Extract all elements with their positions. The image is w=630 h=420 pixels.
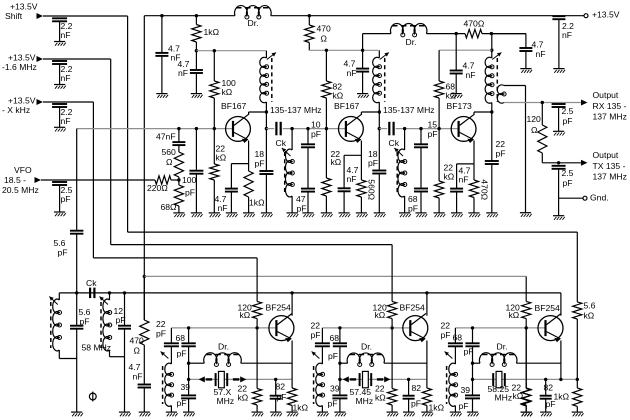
output terminal RX <box>581 90 627 122</box>
svg-text:18.5 -: 18.5 - <box>4 175 26 185</box>
resistor 470 ohm horizontal <box>464 19 526 38</box>
wire shift line <box>128 231 578 233</box>
ground <box>156 94 168 98</box>
svg-text:pF: pF <box>459 401 469 411</box>
input terminal +13.5V -1.6 MHz <box>2 53 43 72</box>
svg-text:MHz: MHz <box>495 393 513 403</box>
label 39 <box>330 384 340 394</box>
label MHz <box>495 393 513 403</box>
svg-text:pF: pF <box>116 315 126 325</box>
ground <box>403 412 415 416</box>
capacitor 82pF osc2 <box>403 379 415 412</box>
resistor 100k ohm <box>210 51 236 129</box>
label 68 <box>330 333 340 343</box>
wire injection line <box>59 292 561 294</box>
label kΩ <box>238 393 249 403</box>
svg-text:BF173: BF173 <box>447 101 473 111</box>
wire Q1 emitter <box>231 141 248 164</box>
wire supply feed down <box>143 16 145 320</box>
node tank2 bottom <box>378 127 381 130</box>
label pF <box>177 349 187 359</box>
label 22 <box>311 321 321 331</box>
ground <box>119 412 131 416</box>
ground <box>302 213 314 217</box>
node injection left <box>75 291 78 294</box>
svg-text:Ck: Ck <box>389 138 400 148</box>
svg-text:137 MHz: 137 MHz <box>593 112 627 122</box>
svg-text:kΩ: kΩ <box>584 311 595 321</box>
ground <box>321 213 333 217</box>
wire base rail stage1 <box>77 128 233 130</box>
resistor 22k ohm osc1 <box>253 328 262 412</box>
svg-text:RX 135 -: RX 135 - <box>593 101 627 111</box>
label 120 <box>506 303 521 313</box>
wire coupling 1-2a <box>266 128 274 130</box>
resistor 1k ohm osc3 <box>573 379 582 412</box>
label Dr. <box>361 342 372 352</box>
svg-text:Output: Output <box>593 90 619 100</box>
svg-text:Shift: Shift <box>5 11 23 21</box>
node stage3 rail riser <box>490 49 493 52</box>
capacitor 2.2nF feedthrough right <box>552 16 574 68</box>
wire subrail b <box>426 33 465 35</box>
label pF <box>177 398 187 408</box>
svg-text:22: 22 <box>496 139 506 149</box>
svg-text:nF: nF <box>466 70 476 80</box>
svg-text:kΩ: kΩ <box>333 91 344 101</box>
capacitor 22pF osc3 <box>448 328 463 346</box>
resistor 22k ohm stage3 <box>435 129 455 213</box>
resistor 120k ohm osc2 <box>388 245 397 328</box>
label 22 <box>512 383 522 393</box>
node shunt coil 1-2 <box>290 127 293 130</box>
svg-text:1kΩ: 1kΩ <box>554 391 570 401</box>
svg-text:47: 47 <box>296 194 306 204</box>
ground <box>270 412 282 416</box>
wire input3 <box>43 102 93 258</box>
wire choke line osc2 <box>338 362 427 365</box>
label 1kΩ <box>429 403 445 413</box>
svg-text:15: 15 <box>428 120 438 130</box>
svg-text:kΩ: kΩ <box>375 393 386 403</box>
node 15pF <box>419 127 422 130</box>
label pF <box>328 351 338 361</box>
svg-text:BF254: BF254 <box>535 303 561 313</box>
label 82 <box>276 382 286 392</box>
label pF <box>311 330 321 340</box>
node 10pF <box>306 127 309 130</box>
svg-text:pF: pF <box>58 248 68 258</box>
ground <box>434 213 446 217</box>
ground <box>520 69 532 73</box>
svg-text:VFO: VFO <box>14 165 32 175</box>
capacitor 4.7nF stage2 emitter <box>338 155 359 213</box>
label BF254 <box>535 303 561 313</box>
ground <box>356 213 368 217</box>
ground <box>287 412 299 416</box>
svg-text:560: 560 <box>162 147 177 157</box>
ground <box>421 412 433 416</box>
svg-text:5.6: 5.6 <box>584 301 596 311</box>
svg-text:pF: pF <box>185 188 195 198</box>
node collector tank1 <box>265 110 268 113</box>
choke Dr. osc2 <box>347 353 384 367</box>
label BF254 <box>400 303 426 313</box>
svg-text:120: 120 <box>527 114 542 124</box>
wire choke line osc1 <box>187 362 292 365</box>
crystal osc2 selectable <box>343 371 391 387</box>
svg-text:20.5 MHz: 20.5 MHz <box>2 185 39 195</box>
label MHz <box>217 396 235 406</box>
svg-text:135-137 MHz: 135-137 MHz <box>383 105 435 115</box>
node 58MHz coil <box>108 291 111 294</box>
resistor 68 ohm <box>161 180 184 213</box>
ground <box>191 213 203 217</box>
label Dr. <box>218 342 229 352</box>
wire base line osc1 <box>171 326 276 329</box>
wire subrail a <box>363 33 391 35</box>
svg-text:Ω: Ω <box>166 157 173 167</box>
resistor 1k ohm stage1 emitter <box>244 164 265 213</box>
svg-text:TX 135 -: TX 135 - <box>593 161 626 171</box>
svg-text:+13.5V: +13.5V <box>8 53 36 63</box>
node base rail 100pF <box>195 127 198 130</box>
svg-text:nF: nF <box>133 372 143 382</box>
wire choke line osc3 <box>471 362 561 365</box>
resistor 120 ohm <box>527 103 547 163</box>
label 22 <box>375 384 385 394</box>
node top rail 1k <box>195 14 198 17</box>
svg-text:-1.6 MHz: -1.6 MHz <box>2 62 37 72</box>
svg-text:pF: pF <box>328 399 338 409</box>
svg-text:BF254: BF254 <box>266 303 292 313</box>
svg-text:pF: pF <box>441 330 451 340</box>
svg-text:Ω: Ω <box>134 346 141 356</box>
ground <box>54 127 66 131</box>
inductor shunt 2-3 <box>394 129 407 213</box>
capacitor 47pF <box>296 147 315 213</box>
ground <box>287 213 299 217</box>
svg-text:470Ω: 470Ω <box>464 19 485 29</box>
svg-text:nF: nF <box>61 73 71 83</box>
ground <box>553 131 565 135</box>
capacitor Ck injection <box>86 278 97 298</box>
transistor BF254 osc3 <box>538 314 563 343</box>
transistor Q3 BF173 <box>447 101 477 143</box>
transistor Q1 BF167 <box>221 101 250 143</box>
svg-text:100: 100 <box>182 175 197 185</box>
svg-text:Dr.: Dr. <box>361 342 372 352</box>
resistor 1k ohm osc2 <box>422 379 431 412</box>
capacitor 68pF osc1 <box>181 328 195 395</box>
svg-text:nF: nF <box>61 116 71 126</box>
svg-text:+13.5V: +13.5V <box>8 96 36 106</box>
wire osc supply line <box>144 275 526 277</box>
wire base line osc3 <box>455 326 545 329</box>
ground <box>357 94 369 98</box>
terminal Gnd <box>559 193 609 203</box>
svg-text:kΩ: kΩ <box>222 87 233 97</box>
resistor 1k ohm osc1 <box>288 379 297 412</box>
wire crystal line osc3 <box>471 378 561 381</box>
svg-text:pF: pF <box>428 129 438 139</box>
label pF <box>441 330 451 340</box>
wire Q1 collector <box>249 112 267 115</box>
ground <box>243 213 255 217</box>
label 120 <box>373 303 388 313</box>
ground <box>183 412 195 416</box>
ground <box>553 216 565 220</box>
svg-text:MHz: MHz <box>217 396 235 406</box>
ground <box>339 213 351 217</box>
ground <box>468 213 480 217</box>
node VFO 560/68 <box>177 178 180 181</box>
svg-text:pF: pF <box>156 329 166 339</box>
capacitor 2.2nF feedthrough input3 <box>52 104 73 127</box>
node supply branch <box>143 275 146 278</box>
svg-text:470: 470 <box>317 24 332 34</box>
svg-text:pF: pF <box>328 351 338 361</box>
capacitor 68pF osc2 <box>333 328 347 395</box>
ground <box>226 213 238 217</box>
wire Q2 emitter <box>344 141 361 156</box>
label pF <box>459 401 469 411</box>
svg-text:nF: nF <box>459 175 469 185</box>
output terminal TX <box>581 150 627 182</box>
wire collector osc3 <box>560 293 562 316</box>
symbol phi marker <box>89 392 96 402</box>
wire coupling 1-2b <box>283 128 346 130</box>
svg-text:560Ω: 560Ω <box>366 179 376 200</box>
choke Dr. stage2 <box>391 23 427 47</box>
node tank1 bottom <box>265 127 268 130</box>
wire coupling 2-3b <box>396 128 459 130</box>
wire VFO input <box>41 179 155 181</box>
svg-text:82: 82 <box>276 382 286 392</box>
inductor injection tank left <box>49 293 76 359</box>
svg-text:Dr.: Dr. <box>218 342 229 352</box>
svg-text:nF: nF <box>61 30 71 40</box>
input terminal +13.5V Shift <box>5 2 43 22</box>
ground <box>166 412 178 416</box>
wire stage3 riser <box>491 34 493 58</box>
wire Q3 emitter <box>457 141 474 164</box>
label 57.45 <box>350 387 372 397</box>
ground <box>317 412 329 416</box>
svg-text:pF: pF <box>408 204 418 214</box>
label 5.6 <box>584 301 596 311</box>
capacitor 2.5pF feedthrough VFO <box>52 182 73 212</box>
svg-text:+13.5V: +13.5V <box>10 2 38 12</box>
ground <box>71 412 83 416</box>
svg-text:kΩ: kΩ <box>446 91 457 101</box>
resistor 560 ohm stage2 emitter <box>357 155 377 213</box>
label 22 <box>156 319 166 329</box>
node 120 ohm top <box>541 101 544 104</box>
svg-text:68Ω: 68Ω <box>161 202 178 212</box>
svg-text:pF: pF <box>496 149 506 159</box>
capacitor 4.7nF top right <box>492 34 546 69</box>
svg-text:82: 82 <box>544 383 554 393</box>
input terminal +13.5V -X kHz <box>2 96 43 116</box>
ground <box>451 94 463 98</box>
node collector tank2 <box>378 110 381 113</box>
capacitor 39pF osc3 <box>465 395 480 412</box>
node base2 bias <box>325 127 328 130</box>
svg-text:135-137 MHz: 135-137 MHz <box>270 105 322 115</box>
capacitor 4.7nF stage1 bypass <box>178 51 203 94</box>
svg-text:18: 18 <box>255 149 265 159</box>
capacitor 5.6pF shunt <box>70 293 91 412</box>
capacitor 12pF <box>114 293 132 412</box>
wire coupling 2-3a <box>379 128 387 130</box>
wire crystal line osc2 <box>338 378 427 381</box>
wire Q3 collector <box>474 112 492 115</box>
wire emitter osc1 <box>291 341 293 380</box>
node collector osc2 <box>425 291 428 294</box>
svg-text:nF: nF <box>347 68 357 78</box>
capacitor 22pF stage3 <box>485 139 506 213</box>
svg-text:Output: Output <box>593 150 619 160</box>
wire base line osc2 <box>322 326 410 329</box>
svg-text:pF: pF <box>177 398 187 408</box>
node collector osc1 <box>290 291 293 294</box>
svg-text:1kΩ: 1kΩ <box>429 403 445 413</box>
svg-text:kΩ: kΩ <box>509 310 520 320</box>
label kΩ <box>584 311 595 321</box>
capacitor 4.7nF stage1 emitter <box>215 164 238 214</box>
ground <box>252 412 264 416</box>
resistor 22k ohm osc3 <box>522 328 531 412</box>
capacitor 18pF stage1 <box>255 129 274 213</box>
crystal osc1 selectable <box>199 371 247 387</box>
capacitor 2.2nF feedthrough input1 <box>52 18 73 41</box>
label 22 <box>441 321 451 331</box>
svg-text:Gnd.: Gnd. <box>590 193 609 203</box>
ground <box>486 213 498 217</box>
ground <box>334 412 346 416</box>
resistor 82k ohm <box>322 50 344 128</box>
svg-text:pF: pF <box>563 178 573 188</box>
wire input1 <box>43 16 128 232</box>
label 58.25 <box>488 384 510 394</box>
resistor 470 ohm stage3 emitter <box>469 164 489 213</box>
svg-text:- X kHz: - X kHz <box>2 105 30 115</box>
label kΩ <box>375 393 386 403</box>
ground <box>451 213 463 217</box>
label kΩ <box>509 310 520 320</box>
capacitor 82pF osc1 <box>270 379 282 412</box>
svg-text:Dr.: Dr. <box>497 342 508 352</box>
inductor 135-137 MHz tank2 <box>373 50 435 128</box>
wire emitter osc2 <box>426 341 428 380</box>
wire Q2 collector <box>361 112 379 115</box>
svg-text:2.5: 2.5 <box>562 106 574 116</box>
label pF <box>411 399 421 409</box>
inductor feedback coil osc2 <box>312 346 325 412</box>
wire riser to subrail <box>362 34 364 51</box>
svg-text:Ck: Ck <box>86 278 97 288</box>
resistor 470 ohm stage2 feed <box>305 16 331 51</box>
capacitor 4.7nF injection <box>129 362 152 412</box>
node stage2 rail riser <box>361 49 364 52</box>
capacitor 4.7nF rail bypass left <box>155 16 180 94</box>
inductor tank3 primary <box>485 53 501 161</box>
wire collector osc2 <box>426 293 428 316</box>
svg-text:nF: nF <box>536 49 546 59</box>
ground <box>520 213 532 217</box>
svg-text:47nF: 47nF <box>156 132 176 142</box>
svg-text:pF: pF <box>563 116 573 126</box>
label pF <box>156 329 166 339</box>
resistor 22k ohm stage1 <box>210 129 227 213</box>
node base rail bias <box>213 127 216 130</box>
resistor 22k ohm osc2 <box>388 328 397 412</box>
node base rail 47nF <box>177 127 180 130</box>
capacitor 82pF osc3 <box>540 379 552 412</box>
ground <box>399 213 411 217</box>
svg-text:nF: nF <box>347 174 357 184</box>
svg-text:kΩ: kΩ <box>375 310 386 320</box>
ground <box>191 94 203 98</box>
svg-text:MHz: MHz <box>356 396 374 406</box>
svg-text:pF: pF <box>411 399 421 409</box>
capacitor 68pF osc3 <box>465 328 479 395</box>
capacitor 5.6pF series <box>54 129 84 293</box>
label 39 <box>181 382 191 392</box>
ground <box>572 412 584 416</box>
svg-text:pF: pF <box>464 347 474 357</box>
svg-text:1kΩ: 1kΩ <box>293 403 309 413</box>
svg-text:5.6: 5.6 <box>54 238 66 248</box>
label 1kΩ <box>293 403 309 413</box>
label kΩ <box>375 310 386 320</box>
svg-text:kΩ: kΩ <box>216 153 227 163</box>
label 39 <box>461 385 471 395</box>
wire crystal line osc3 ext <box>559 378 577 381</box>
ground <box>387 412 399 416</box>
svg-text:58 MHz: 58 MHz <box>82 343 112 353</box>
choke Dr. osc1 <box>204 353 242 367</box>
node base3 bias <box>437 127 440 130</box>
svg-text:pF: pF <box>277 392 287 402</box>
resistor 22k ohm stage2 <box>322 129 342 213</box>
capacitor 47nF <box>156 129 185 146</box>
transistor BF254 osc2 <box>403 314 428 343</box>
wire TX output line <box>542 162 581 164</box>
svg-text:220Ω: 220Ω <box>147 183 168 193</box>
capacitor 22pF osc2 <box>315 328 330 346</box>
choke Dr. osc3 <box>479 353 517 367</box>
capacitor 15pF <box>414 120 438 148</box>
capacitor Ck stage1 <box>276 122 287 148</box>
label kΩ <box>240 310 251 320</box>
svg-text:470: 470 <box>130 336 145 346</box>
input terminal VFO 18.5-20.5 MHz <box>2 165 41 195</box>
svg-text:Dr.: Dr. <box>406 37 417 47</box>
capacitor 4.7nF stage3 bypass <box>450 34 476 94</box>
capacitor 100pF <box>182 129 203 213</box>
svg-text:Dr.: Dr. <box>248 18 259 28</box>
svg-text:nF: nF <box>218 203 228 213</box>
wire collector osc1 <box>291 293 293 316</box>
node shunt coil 2-3 <box>403 127 406 130</box>
capacitor 2.5pF TX <box>552 166 574 216</box>
svg-text:kΩ: kΩ <box>331 157 342 167</box>
label 22 <box>238 384 248 394</box>
label MHz <box>356 396 374 406</box>
ground <box>173 213 185 217</box>
